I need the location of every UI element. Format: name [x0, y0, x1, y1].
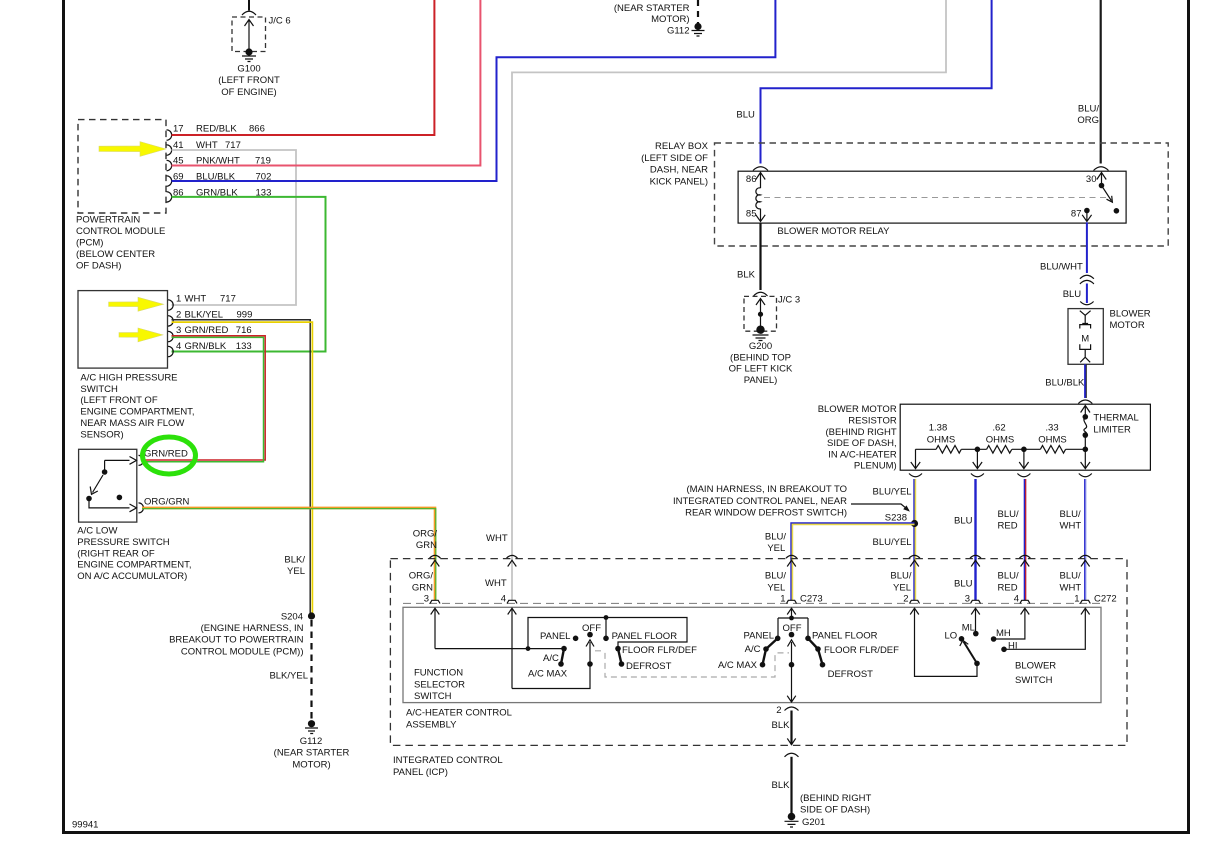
relay pin 86 arrow terminal [756, 173, 765, 189]
PCM pin bump 69 [167, 176, 172, 186]
wire BLU (top to relay 86) [761, 0, 992, 164]
arrow terminal inside J/C 6 [245, 20, 254, 53]
svg-text:.33: .33 [1045, 423, 1058, 434]
contact A/C right [763, 646, 769, 652]
svg-text:716: 716 [236, 325, 252, 336]
svg-text:1: 1 [780, 593, 785, 604]
svg-text:RED/BLK: RED/BLK [196, 124, 237, 135]
ground G201 symbol [785, 821, 799, 827]
svg-text:ASSEMBLY: ASSEMBLY [406, 719, 457, 730]
svg-text:C272: C272 [1094, 593, 1117, 604]
svg-text:SWITCH: SWITCH [414, 691, 452, 702]
svg-text:A/C LOW: A/C LOW [77, 526, 117, 537]
LPS pin terminal top [130, 457, 137, 465]
annotation yellow arrow at HPS pin 1 [109, 297, 164, 311]
svg-text:GRN: GRN [412, 582, 433, 593]
svg-text:PANEL FLOOR: PANEL FLOOR [812, 631, 878, 642]
svg-text:(NEAR STARTER: (NEAR STARTER [274, 748, 350, 759]
pass-through at WHT [507, 555, 518, 566]
wire BLK (switch to ICP edge) [790, 711, 792, 745]
svg-text:(BELOW CENTER: (BELOW CENTER [76, 249, 155, 260]
svg-text:POWERTRAIN: POWERTRAIN [76, 215, 140, 226]
svg-text:(LEFT FRONT OF: (LEFT FRONT OF [80, 395, 157, 406]
ground G200 symbol [753, 335, 769, 341]
svg-text:3: 3 [965, 593, 970, 604]
svg-text:BLU: BLU [736, 110, 755, 121]
ground G112 symbol [305, 728, 318, 734]
switch wiper OFF position [586, 640, 594, 664]
svg-text:FUNCTION: FUNCTION [414, 668, 463, 679]
junction dot J/C 3 [758, 312, 763, 317]
svg-text:BLK: BLK [737, 270, 756, 281]
svg-text:RED: RED [998, 582, 1018, 593]
svg-text:WHT: WHT [485, 578, 507, 589]
contact FLOOR FLR/DEF right [815, 646, 821, 652]
svg-text:BLU: BLU [954, 515, 973, 526]
contact HI with pin 1 wire [1007, 608, 1090, 649]
relay pin 87 terminal [1084, 208, 1090, 214]
svg-text:717: 717 [220, 294, 236, 305]
splice S238 dot [911, 520, 918, 527]
wire BLK (relay 85 to J/C 3) [759, 223, 761, 290]
pass-through at BLU/YEL 1 [786, 555, 797, 566]
inline connector (two bumps) [1080, 275, 1094, 279]
wire BLU/ORG (top to relay 30) [1100, 0, 1102, 164]
svg-text:ORG/: ORG/ [409, 571, 434, 582]
svg-text:MOTOR): MOTOR) [292, 759, 330, 770]
contact A/C [561, 646, 567, 652]
switch lever A/C to A/C MAX [561, 649, 564, 664]
svg-text:MOTOR: MOTOR [1110, 320, 1145, 331]
blower motor receptacle cup [1080, 302, 1093, 305]
contact PANEL FLOOR [603, 636, 609, 642]
svg-text:BLU/: BLU/ [998, 509, 1019, 520]
svg-text:4: 4 [176, 341, 181, 352]
junction connector J/C 3 dashed box [744, 296, 777, 331]
function selector switch pin 3 arrow and wire [431, 608, 440, 648]
blower switch pin 2 arrow and wire [910, 608, 977, 676]
svg-text:G112: G112 [300, 736, 323, 747]
connector cups below resistor box [909, 474, 922, 477]
pin bump BLU/RED 4 [1020, 600, 1030, 603]
svg-text:YEL: YEL [287, 566, 305, 577]
svg-text:PANEL (ICP): PANEL (ICP) [393, 767, 448, 778]
svg-text:A/C-HEATER CONTROL: A/C-HEATER CONTROL [406, 708, 512, 719]
ICP dashed box [390, 559, 1127, 746]
contact PANEL FLOOR right [805, 636, 811, 642]
blower motor resistor box [900, 404, 1150, 470]
svg-text:OHMS: OHMS [986, 434, 1015, 445]
function selector switch pin 4 arrow and wire [508, 608, 517, 688]
svg-text:S204: S204 [281, 611, 303, 622]
svg-text:OF ENGINE): OF ENGINE) [221, 87, 276, 98]
svg-text:OF LEFT KICK: OF LEFT KICK [729, 364, 793, 375]
svg-text:G112: G112 [667, 26, 690, 37]
ground G201 dot [788, 813, 796, 821]
PCM pin bump 86 [167, 192, 172, 202]
svg-text:A/C MAX: A/C MAX [528, 668, 568, 679]
svg-text:BREAKOUT TO POWERTRAIN: BREAKOUT TO POWERTRAIN [169, 635, 304, 646]
PCM pin bump 17 [167, 130, 172, 140]
blower motor relay box [738, 171, 1126, 223]
svg-text:PANEL: PANEL [744, 631, 774, 642]
wire RED/BLK 866 (PCM 17 to top) [172, 0, 435, 135]
svg-text:WHT: WHT [1060, 520, 1082, 531]
svg-text:RESISTOR: RESISTOR [848, 416, 897, 427]
contact OFF right [789, 632, 795, 638]
border frame bottom [62, 831, 1190, 834]
pin bump BLU 3 [971, 600, 981, 603]
function selector switch wiring left [435, 648, 564, 650]
svg-text:GRN: GRN [416, 540, 437, 551]
svg-text:GRN/RED: GRN/RED [144, 449, 188, 460]
svg-text:3: 3 [424, 593, 429, 604]
svg-text:(LEFT FRONT: (LEFT FRONT [218, 75, 280, 86]
connector bump at relay pin 86 [753, 167, 768, 171]
resistor network bus [916, 448, 937, 450]
annotation yellow arrow at PCM pin 41 [99, 142, 166, 157]
pin bump BLU/WHT 1 [1080, 600, 1090, 603]
svg-text:A/C: A/C [543, 653, 559, 664]
svg-text:PANEL): PANEL) [744, 375, 778, 386]
arrow terminal inside J/C 3 [756, 299, 765, 330]
A/C low pressure switch box [79, 449, 137, 522]
svg-text:(ENGINE HARNESS, IN: (ENGINE HARNESS, IN [201, 623, 304, 634]
svg-text:LO: LO [945, 631, 958, 642]
svg-text:BLU/BLK: BLU/BLK [1045, 378, 1085, 389]
svg-text:BLU/YEL: BLU/YEL [873, 487, 912, 498]
wire BLK into J/C 6 [248, 0, 250, 11]
LPS internal contacts [105, 460, 130, 469]
pass-through at BLU [970, 555, 981, 566]
connector bump at J/C 6 [242, 11, 256, 15]
ground G112 top symbol [692, 31, 705, 37]
svg-text:OF DASH): OF DASH) [76, 260, 121, 271]
svg-text:OHMS: OHMS [927, 434, 956, 445]
svg-text:30: 30 [1086, 174, 1097, 185]
ground G112 dot [308, 720, 315, 727]
svg-text:FLOOR FLR/DEF: FLOOR FLR/DEF [824, 645, 899, 656]
svg-text:.62: .62 [992, 423, 1005, 434]
levers right switch left side [766, 638, 778, 649]
relay pin 85 arrow terminal [756, 209, 765, 222]
svg-text:FLOOR FLR/DEF: FLOOR FLR/DEF [622, 645, 697, 656]
svg-text:A/C MAX: A/C MAX [718, 660, 758, 671]
wire ORG/GRN (LPS to ICP pin 3) [142, 508, 435, 600]
HPS pin bump 2 [168, 316, 173, 326]
PCM pin bump 41 [167, 145, 172, 155]
wire BLU/RED (resistor to ICP pin 4 C272) [1024, 479, 1026, 600]
svg-text:J/C 6: J/C 6 [269, 16, 291, 27]
svg-text:REAR WINDOW DEFROST SWITCH): REAR WINDOW DEFROST SWITCH) [685, 508, 847, 519]
svg-text:RELAY BOX: RELAY BOX [655, 141, 709, 152]
junction dot J/C 6 [245, 48, 252, 55]
svg-text:BLU/: BLU/ [1078, 104, 1099, 115]
wire BLK (ICP to G201) [790, 757, 792, 813]
svg-text:BLU/WHT: BLU/WHT [1040, 262, 1083, 273]
svg-text:BLU: BLU [954, 579, 973, 590]
contact MH with pin 4 wire [996, 608, 1029, 639]
contact ML with pin 3 wire [971, 608, 980, 631]
pass-through at BLU/WHT [1080, 555, 1091, 566]
svg-text:1: 1 [176, 294, 181, 305]
svg-text:4: 4 [1014, 593, 1019, 604]
svg-text:BLU/: BLU/ [765, 571, 786, 582]
border frame left [62, 0, 65, 834]
svg-text:BLOWER MOTOR: BLOWER MOTOR [818, 404, 897, 415]
contact PANEL right [775, 636, 781, 642]
svg-text:BLK: BLK [772, 720, 791, 731]
svg-text:1: 1 [1074, 593, 1079, 604]
svg-text:SIDE OF DASH,: SIDE OF DASH, [827, 438, 897, 449]
svg-text:99941: 99941 [72, 820, 98, 831]
contact DEFROST right [820, 662, 826, 668]
svg-text:866: 866 [249, 124, 265, 135]
blower switch wiper [974, 661, 980, 667]
svg-text:G100: G100 [237, 64, 260, 75]
resistor element 1.38 [936, 446, 961, 454]
svg-text:M: M [1081, 334, 1089, 345]
blower motor fork terminal [1080, 311, 1091, 324]
svg-text:(BEHIND RIGHT: (BEHIND RIGHT [800, 793, 871, 804]
svg-text:WHT: WHT [486, 533, 508, 544]
svg-text:PLENUM): PLENUM) [854, 461, 897, 472]
LPS pin terminal bottom [130, 504, 137, 512]
right switch top bar [778, 618, 808, 638]
wire BLU/WHT (resistor to ICP pin 1 C272) [1084, 479, 1086, 600]
junction connector J/C 6 dashed box [232, 17, 266, 52]
wire BLK dashed to G112 top [697, 0, 699, 23]
function selector switch right pin 1 arrow and wire [787, 608, 796, 618]
motor symbol brackets [1080, 325, 1091, 329]
svg-text:4: 4 [501, 593, 506, 604]
switch lever FLOOR to DEFROST [618, 649, 622, 664]
connector bump at resistor box [1078, 400, 1092, 404]
pin bump BLU/YEL 2 [910, 600, 920, 603]
svg-text:(BEHIND TOP: (BEHIND TOP [730, 352, 791, 363]
svg-text:SENSOR): SENSOR) [80, 429, 123, 440]
svg-text:IN A/C-HEATER: IN A/C-HEATER [828, 449, 897, 460]
annotation green circle [143, 437, 196, 474]
relay coil [756, 188, 761, 209]
svg-text:ENGINE COMPARTMENT,: ENGINE COMPARTMENT, [77, 560, 191, 571]
contact A/C MAX [558, 661, 564, 667]
svg-text:(RIGHT REAR OF: (RIGHT REAR OF [77, 548, 155, 559]
svg-text:BLU/YEL: BLU/YEL [873, 537, 912, 548]
ground G100 symbol [242, 56, 256, 62]
blower motor box [1068, 309, 1103, 365]
PCM dashed box [78, 120, 166, 213]
gray dashed detent lines [595, 651, 789, 677]
contact A/C MAX right [760, 662, 766, 668]
svg-text:CONTROL MODULE (PCM)): CONTROL MODULE (PCM)) [181, 646, 304, 657]
svg-text:BLK/YEL: BLK/YEL [269, 671, 308, 682]
svg-text:SIDE OF DASH): SIDE OF DASH) [800, 805, 870, 816]
svg-text:A/C HIGH PRESSURE: A/C HIGH PRESSURE [80, 372, 177, 383]
svg-text:SWITCH: SWITCH [1015, 675, 1053, 686]
motor bottom chevron [1080, 349, 1090, 362]
border frame right [1187, 0, 1190, 834]
svg-text:85: 85 [746, 209, 757, 220]
svg-text:GRN/BLK: GRN/BLK [185, 341, 227, 352]
splice S204 dot [308, 612, 315, 619]
pass-through at BLU/YEL 2 [909, 555, 920, 566]
svg-text:WHT: WHT [1060, 582, 1082, 593]
contact DEFROST [619, 661, 625, 667]
connector bump at J/C 3 [754, 292, 768, 296]
svg-text:87: 87 [1071, 209, 1082, 220]
A/C-heater control assembly box [403, 607, 1101, 702]
svg-text:GRN/RED: GRN/RED [185, 325, 229, 336]
svg-text:LIMITER: LIMITER [1093, 424, 1131, 435]
svg-text:DEFROST: DEFROST [626, 661, 672, 672]
resistor output stubs with arrows [911, 449, 920, 468]
svg-text:NEAR MASS AIR FLOW: NEAR MASS AIR FLOW [80, 418, 184, 429]
svg-text:BLK: BLK [772, 780, 791, 791]
svg-text:BLU/: BLU/ [1060, 571, 1081, 582]
svg-text:86: 86 [746, 174, 757, 185]
svg-text:BLK/: BLK/ [284, 555, 305, 566]
svg-text:1.38: 1.38 [929, 423, 948, 434]
wire GRN/BLK 133 (PCM 86 to A/C HPS 4) [172, 197, 326, 352]
svg-text:DASH, NEAR: DASH, NEAR [650, 165, 708, 176]
svg-text:RED: RED [998, 520, 1018, 531]
pass-through at BLU/RED [1019, 555, 1030, 566]
wire BLU/YEL (S238 to ICP pin 1 C273) [792, 524, 915, 601]
pin bump WHT 4 [507, 600, 517, 603]
pin bump ORG/GRN 3 [430, 600, 440, 603]
svg-text:SELECTOR: SELECTOR [414, 679, 465, 690]
svg-text:BLU/: BLU/ [765, 532, 786, 543]
wire BLK/YEL dashed (S204 to G112) [310, 620, 312, 721]
svg-text:2: 2 [903, 593, 908, 604]
svg-text:ORG/: ORG/ [413, 528, 438, 539]
svg-text:17: 17 [173, 124, 184, 135]
svg-text:S238: S238 [885, 512, 907, 523]
svg-text:BLU/: BLU/ [998, 571, 1019, 582]
connector bump below assembly box [785, 707, 799, 711]
wire BLU/YEL (resistor to S238 to ICP pin 2) [913, 479, 915, 600]
svg-text:A/C: A/C [745, 644, 761, 655]
svg-text:OHMS: OHMS [1038, 434, 1067, 445]
svg-text:133: 133 [236, 341, 252, 352]
ground G200 dot [756, 326, 764, 334]
thermal limiter element [1083, 414, 1089, 420]
svg-text:(MAIN HARNESS, IN BREAKOUT TO: (MAIN HARNESS, IN BREAKOUT TO [687, 484, 847, 495]
PCM pin bump 45 [167, 160, 172, 170]
HPS pin bump 4 [168, 346, 173, 356]
resistor element .33 [1040, 446, 1065, 454]
svg-text:BLU/: BLU/ [890, 571, 911, 582]
svg-text:PANEL FLOOR: PANEL FLOOR [612, 631, 678, 642]
relay armature dashed link [764, 197, 1107, 199]
svg-text:ON A/C ACCUMULATOR): ON A/C ACCUMULATOR) [77, 571, 187, 582]
svg-text:(NEAR STARTER: (NEAR STARTER [614, 3, 690, 14]
pass-through at ORG/GRN [430, 555, 441, 566]
HPS pin bump 3 [168, 331, 173, 341]
annotation yellow arrow at HPS pin 3 [119, 328, 163, 342]
resistor element .62 [987, 446, 1012, 454]
svg-text:HI: HI [1008, 641, 1018, 652]
svg-text:3: 3 [176, 325, 181, 336]
svg-text:PRESSURE SWITCH: PRESSURE SWITCH [77, 537, 170, 548]
svg-text:C273: C273 [800, 593, 823, 604]
wire BLU/BLK 702 (PCM 69 to top) [172, 0, 776, 181]
levers right switch right side [808, 638, 818, 649]
svg-text:YEL: YEL [767, 582, 785, 593]
svg-text:THERMAL: THERMAL [1093, 412, 1138, 423]
svg-text:(LEFT SIDE OF: (LEFT SIDE OF [641, 153, 708, 164]
svg-text:OFF: OFF [783, 623, 802, 634]
svg-text:G200: G200 [749, 341, 772, 352]
contact PANEL [573, 636, 579, 642]
svg-text:YEL: YEL [767, 543, 785, 554]
connector bump below ICP [785, 753, 799, 757]
svg-text:2: 2 [776, 705, 781, 716]
A/C high pressure switch box [78, 291, 168, 369]
svg-text:J/C 3: J/C 3 [778, 295, 800, 306]
svg-text:MH: MH [996, 628, 1011, 639]
right switch wiper with output [788, 640, 796, 665]
HPS pin bump 1 [168, 300, 173, 310]
svg-text:OFF: OFF [582, 623, 601, 634]
wire BLU (resistor to ICP pin 3 C272) [974, 479, 976, 600]
svg-text:MOTOR): MOTOR) [651, 14, 689, 25]
note arrow to S238 [851, 504, 909, 511]
svg-text:BLU/: BLU/ [1060, 509, 1081, 520]
wire BLK/YEL 999 (HPS 2 to S204) [172, 320, 311, 614]
svg-text:ML: ML [962, 623, 975, 634]
pin bump BLU/YEL 1 [787, 600, 797, 603]
svg-text:INTEGRATED CONTROL PANEL, NEAR: INTEGRATED CONTROL PANEL, NEAR [673, 496, 847, 507]
relay armature contact arm [1102, 186, 1113, 203]
ground G112 top dot [694, 23, 701, 30]
svg-text:PANEL: PANEL [540, 631, 570, 642]
connector C273/C272 dashed line [403, 602, 1101, 604]
svg-text:CONTROL MODULE: CONTROL MODULE [76, 226, 165, 237]
svg-text:YEL: YEL [893, 582, 911, 593]
wire BLU/BLK (motor to resistor) [1084, 364, 1086, 398]
svg-text:ORG/GRN: ORG/GRN [144, 497, 190, 508]
contact FLOOR FLR/DEF [615, 646, 621, 652]
svg-text:KICK PANEL): KICK PANEL) [650, 176, 708, 187]
svg-text:SWITCH: SWITCH [80, 384, 118, 395]
connector bump at relay pin 30 [1094, 167, 1109, 171]
svg-text:(BEHIND RIGHT: (BEHIND RIGHT [825, 427, 896, 438]
wire WHT 717 (PCM 41 to A/C HPS 1) [172, 150, 297, 305]
contact OFF [587, 632, 593, 638]
wire GRN/RED 716 (HPS 3 to A/C LPS) [142, 336, 265, 460]
wire PNK/WHT 719 (PCM 45 to top) [172, 0, 481, 166]
thermal limiter arrow terminal [1081, 406, 1090, 417]
relay pin 30 arrow terminal [1097, 173, 1106, 185]
svg-text:BLOWER: BLOWER [1110, 309, 1151, 320]
svg-text:G201: G201 [802, 817, 825, 828]
relay box dashed outline [715, 143, 1169, 246]
svg-text:BLU: BLU [1063, 289, 1082, 300]
svg-text:INTEGRATED CONTROL: INTEGRATED CONTROL [393, 755, 503, 766]
svg-text:BLOWER MOTOR RELAY: BLOWER MOTOR RELAY [777, 226, 890, 237]
wire WHT (top feed to ICP pin 4) [512, 0, 946, 600]
wire BLU (to blower motor) [1086, 284, 1088, 304]
svg-text:DEFROST: DEFROST [828, 669, 874, 680]
svg-text:ENGINE COMPARTMENT,: ENGINE COMPARTMENT, [80, 407, 194, 418]
wire BLU/WHT (relay 87 down) [1086, 222, 1088, 273]
svg-text:ORG: ORG [1077, 115, 1099, 126]
contact LO [959, 636, 965, 642]
svg-text:(PCM): (PCM) [76, 238, 103, 249]
svg-text:WHT: WHT [185, 294, 207, 305]
